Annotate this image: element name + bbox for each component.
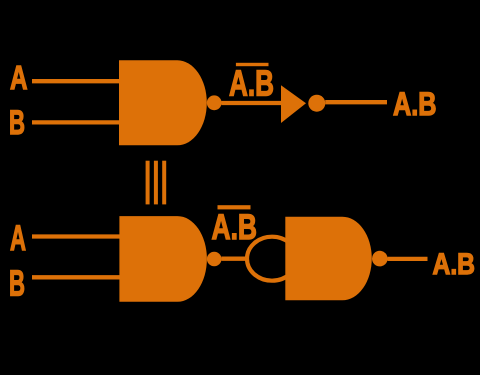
svg-text:A.B: A.B [393,86,437,122]
NAND gate U4 body [285,217,371,301]
wire: top input B to NAND U1 [32,120,121,124]
svg-text:B: B [9,104,25,142]
svg-text:A.B: A.B [229,63,274,104]
label overline of A.B (bottom) [218,205,251,209]
inverter U2 triangle [281,85,306,123]
wire: U4 output [388,257,428,261]
wire: top input A to NAND U1 [32,79,121,83]
inverter U2 output bubble [308,95,325,112]
wire: inverter U2 output [325,100,387,104]
svg-text:A: A [10,219,26,258]
wire: bottom input B to NAND U3 [32,275,122,279]
NAND gate U4 output bubble [372,251,388,267]
NAND gate U1 body [119,60,207,145]
wire: U3 output to tied-input loop [221,257,248,261]
svg-text:B: B [9,263,25,304]
label overline of A.B (top) [236,63,269,66]
svg-text:A: A [10,59,28,96]
wire: U1 output to inverter U2 [222,101,283,105]
svg-text:A.B: A.B [212,208,258,247]
svg-text:A.B: A.B [433,248,476,281]
equivalence symbol (three bars) [146,161,167,205]
wire: bottom input A to NAND U3 [32,234,122,238]
NAND gate U1 output bubble [207,95,222,110]
NAND gate U3 output bubble [207,252,222,267]
NAND gate U3 body [119,216,206,302]
input loop: U4 tied inputs ellipse [247,237,297,281]
